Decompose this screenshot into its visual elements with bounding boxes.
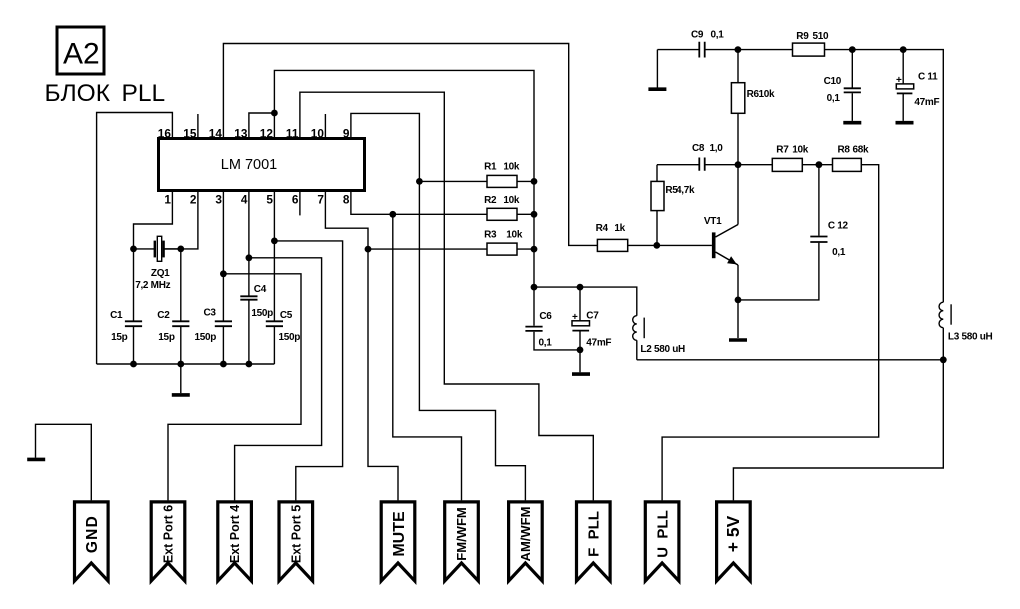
wire R1 right lead bbox=[517, 180, 534, 182]
svg-text:13: 13 bbox=[234, 126, 248, 140]
node R4/R5 base node bbox=[653, 242, 660, 249]
svg-text:2: 2 bbox=[190, 192, 197, 206]
wire pin14 to R4 left bbox=[223, 44, 597, 246]
wire pin2 to crystal right bbox=[164, 191, 198, 249]
svg-text:C2: C2 bbox=[157, 310, 170, 321]
svg-text:+: + bbox=[572, 312, 578, 323]
svg-text:15p: 15p bbox=[158, 332, 175, 343]
svg-text:FM/WFM: FM/WFM bbox=[454, 507, 469, 560]
svg-text:A2: A2 bbox=[63, 38, 100, 71]
wire emitter to ground bbox=[737, 265, 739, 338]
svg-text:MUTE: MUTE bbox=[391, 511, 408, 557]
wire R6 top lead bbox=[737, 50, 739, 83]
wire R2 right lead bbox=[517, 213, 534, 215]
svg-text:10k: 10k bbox=[792, 145, 809, 156]
wire emitter node to C12 bottom bbox=[738, 243, 819, 300]
wire R5 bottom lead bbox=[656, 211, 658, 246]
resistor R4 bbox=[597, 239, 627, 251]
svg-text:C8: C8 bbox=[692, 143, 705, 154]
svg-text:1,0: 1,0 bbox=[710, 143, 724, 154]
svg-text:C9: C9 bbox=[691, 30, 704, 41]
svg-text:AM/WFM: AM/WFM bbox=[518, 507, 533, 562]
wire L3 bottom to +5V bbox=[733, 328, 943, 501]
wire ground bus under C1-C5 bbox=[97, 363, 275, 365]
svg-text:ZQ1: ZQ1 bbox=[151, 268, 170, 279]
wire pin3 to C3 bbox=[222, 191, 224, 322]
svg-text:10: 10 bbox=[311, 126, 325, 140]
wire pin3 branch to Ext Port 6 bbox=[168, 274, 301, 501]
svg-text:C 11: C 11 bbox=[918, 72, 938, 83]
svg-text:C7: C7 bbox=[586, 311, 599, 322]
wire pin16 to ground bus bbox=[97, 113, 173, 365]
svg-text:Ext Port 4: Ext Port 4 bbox=[228, 505, 242, 563]
wire pin4 branch to Ext Port 4 bbox=[235, 258, 322, 501]
wire top rail left to C9 bbox=[657, 49, 699, 51]
wire C8 to R7 bbox=[705, 164, 773, 166]
resistor R2 bbox=[487, 208, 517, 220]
node R6 top node bbox=[735, 46, 742, 53]
svg-text:9: 9 bbox=[343, 126, 350, 140]
capacitor C3 bbox=[215, 321, 232, 326]
wire pin5 to C5 bbox=[273, 191, 275, 322]
node emitter node bbox=[735, 297, 742, 304]
resistor R6 bbox=[731, 83, 744, 114]
wire crystal right node to C2 bbox=[180, 249, 182, 321]
svg-text:R7: R7 bbox=[776, 145, 789, 156]
inductor L3 bbox=[939, 302, 951, 328]
wire pin10 stub bbox=[324, 114, 326, 139]
svg-text:+ 5V: + 5V bbox=[723, 515, 743, 552]
wire C3 to bus bbox=[222, 327, 224, 365]
wire C7 bottom lead bbox=[579, 331, 581, 350]
node R3 left node bbox=[365, 246, 372, 253]
node crystal right node bbox=[177, 246, 184, 253]
wire R5 top lead bbox=[656, 165, 658, 182]
svg-text:C1: C1 bbox=[110, 310, 123, 321]
connector flag GND bbox=[75, 502, 109, 581]
svg-text:L3 580 uH: L3 580 uH bbox=[948, 332, 993, 343]
resistor R1 bbox=[487, 175, 517, 187]
inductor L2 bbox=[633, 316, 645, 341]
capacitor C7 electrolytic bbox=[572, 321, 590, 331]
resistor R7 bbox=[772, 158, 802, 171]
wire R3 right lead bbox=[517, 248, 534, 250]
wire R3 left lead bbox=[368, 248, 487, 250]
svg-text:+: + bbox=[896, 75, 902, 86]
node C3 bus node bbox=[220, 361, 227, 368]
svg-text:C10: C10 bbox=[824, 76, 842, 87]
svg-text:16: 16 bbox=[158, 126, 172, 140]
node pin4 branch node bbox=[246, 254, 253, 261]
wire C11 top lead bbox=[902, 50, 904, 84]
wire C5 to bus bbox=[273, 327, 275, 365]
svg-text:10k: 10k bbox=[503, 195, 520, 206]
svg-text:8: 8 bbox=[343, 192, 350, 206]
wire L2 bottom to bus bbox=[636, 340, 638, 360]
transistor VT1 bbox=[712, 225, 738, 266]
svg-text:7: 7 bbox=[317, 192, 324, 206]
svg-text:R2: R2 bbox=[484, 195, 497, 206]
node R3 right node bbox=[531, 246, 538, 253]
svg-text:PLL: PLL bbox=[122, 80, 166, 107]
svg-text:14: 14 bbox=[209, 126, 223, 140]
ground under C2 bbox=[172, 393, 190, 397]
wire GND flag to ground bbox=[36, 424, 92, 500]
capacitor C12 bbox=[810, 237, 827, 243]
wire pin11 to F PLL bbox=[300, 92, 593, 500]
svg-text:Ext Port 6: Ext Port 6 bbox=[162, 505, 176, 563]
svg-text:GND: GND bbox=[84, 515, 101, 553]
svg-text:R4: R4 bbox=[596, 223, 609, 234]
wire R7 to R8 bbox=[802, 164, 832, 166]
svg-text:R9: R9 bbox=[796, 31, 809, 42]
ground under C10 bbox=[843, 121, 861, 125]
connector flag F PLL bbox=[577, 502, 611, 581]
svg-text:C4: C4 bbox=[254, 284, 267, 295]
capacitor C5 bbox=[266, 321, 283, 326]
svg-text:1: 1 bbox=[164, 192, 171, 206]
node C11 top node bbox=[900, 46, 907, 53]
svg-text:Ext Port 5: Ext Port 5 bbox=[289, 505, 303, 563]
svg-text:68k: 68k bbox=[853, 145, 870, 156]
capacitor C10 bbox=[844, 88, 861, 92]
node crystal left node bbox=[130, 246, 137, 253]
svg-text:150p: 150p bbox=[195, 332, 217, 343]
wire ground stub under C7 bbox=[579, 350, 581, 372]
wire C11 bottom lead bbox=[902, 94, 904, 121]
capacitor C8 bbox=[699, 158, 704, 171]
svg-text:F PLL: F PLL bbox=[586, 511, 603, 557]
resistor R8 bbox=[833, 158, 862, 171]
node L3 bus node bbox=[940, 356, 947, 363]
node R2 left node bbox=[389, 211, 396, 218]
node collector node bbox=[735, 161, 742, 168]
ground under VT1 emitter bbox=[729, 338, 747, 342]
svg-text:C5: C5 bbox=[280, 310, 293, 321]
svg-text:U PLL: U PLL bbox=[655, 510, 672, 558]
svg-text:1k: 1k bbox=[614, 223, 625, 234]
wire R8 to U PLL bbox=[662, 165, 879, 501]
wire R4 right to VT1 base bbox=[628, 244, 712, 246]
ground top left bbox=[27, 458, 45, 462]
svg-text:L2 580 uH: L2 580 uH bbox=[640, 344, 685, 355]
svg-text:5: 5 bbox=[266, 192, 273, 206]
IC U1 LM7001 body bbox=[159, 139, 365, 191]
svg-text:10k: 10k bbox=[506, 230, 523, 241]
connector flag Ext Port 6 bbox=[151, 502, 185, 581]
wire ground stub under C9 rail bbox=[656, 50, 658, 88]
crystal ZQ1 bbox=[134, 236, 181, 261]
node R2 right node bbox=[531, 211, 538, 218]
svg-text:3: 3 bbox=[215, 192, 222, 206]
node C1 bus node bbox=[130, 361, 137, 368]
wire R9 to top right corner bbox=[825, 50, 944, 303]
wire C10 bottom lead bbox=[851, 93, 853, 121]
wire node to L2 top bbox=[534, 287, 637, 316]
wire ground stub under C2 bbox=[180, 364, 182, 393]
node R7/R8/C12 node bbox=[816, 161, 823, 168]
wire R2 left lead bbox=[393, 213, 487, 215]
svg-text:7,2 MHz: 7,2 MHz bbox=[135, 280, 170, 291]
wire crystal left node to C1 bbox=[133, 249, 135, 321]
wire C7 top lead bbox=[579, 287, 581, 321]
svg-text:R8: R8 bbox=[838, 145, 851, 156]
node C6/C7 bottom node bbox=[577, 347, 584, 354]
wire C1 to bus bbox=[133, 327, 135, 365]
svg-text:0,1: 0,1 bbox=[711, 30, 725, 41]
svg-text:0,1: 0,1 bbox=[827, 93, 841, 104]
svg-text:0,1: 0,1 bbox=[539, 337, 553, 348]
connector flag MUTE bbox=[381, 502, 415, 581]
wire pin12 to resistor bus bbox=[274, 70, 534, 325]
wire pin6 stub bbox=[299, 191, 301, 216]
svg-text:12: 12 bbox=[260, 126, 274, 140]
wire pin13 to pin12 bbox=[249, 113, 275, 139]
capacitor C2 bbox=[172, 321, 189, 326]
wire C4 to bus bbox=[248, 300, 250, 364]
node C2 bus node bbox=[177, 361, 184, 368]
wire C12 top lead bbox=[818, 165, 820, 236]
wire pin8 to FM/WFM bbox=[351, 191, 462, 501]
ground under C9 rail bbox=[648, 87, 666, 91]
wire C2 to bus bbox=[180, 327, 182, 365]
svg-text:11: 11 bbox=[286, 126, 299, 140]
resistor R3 bbox=[487, 243, 517, 255]
capacitor C4 bbox=[240, 296, 257, 299]
svg-text:15: 15 bbox=[183, 126, 197, 140]
svg-text:47mF: 47mF bbox=[914, 97, 939, 108]
connector flag Ext Port 5 bbox=[279, 502, 313, 581]
wire pin7 to MUTE bbox=[325, 191, 398, 501]
resistor R9 bbox=[793, 43, 825, 56]
ground under C11 bbox=[896, 121, 914, 125]
svg-text:БЛОК: БЛОК bbox=[45, 80, 111, 107]
svg-text:6: 6 bbox=[292, 192, 299, 206]
wire pin15 stub bbox=[197, 114, 199, 139]
wire R1 left lead bbox=[419, 180, 487, 182]
node C4 bus node bbox=[246, 361, 253, 368]
wire bottom bus L2 to L3 bbox=[637, 359, 944, 361]
wire pin4 to C4 bbox=[248, 191, 250, 296]
node pin12/pin13 node bbox=[271, 110, 278, 117]
svg-text:15p: 15p bbox=[111, 332, 128, 343]
resistor R5 bbox=[651, 181, 664, 210]
svg-text:150p: 150p bbox=[251, 308, 273, 319]
connector flag Ext Port 4 bbox=[218, 502, 252, 581]
svg-text:VT1: VT1 bbox=[704, 216, 722, 227]
node R1 left node bbox=[416, 178, 423, 185]
svg-text:510: 510 bbox=[813, 31, 830, 42]
node pin5 branch node bbox=[271, 238, 278, 245]
wire R5 to C8 bbox=[657, 164, 699, 166]
svg-text:LM 7001: LM 7001 bbox=[221, 157, 277, 173]
capacitor C11 electrolytic bbox=[896, 84, 913, 94]
capacitor C6 bbox=[525, 327, 542, 331]
svg-text:R3: R3 bbox=[484, 230, 497, 241]
wire pin9 to AM/WFM bbox=[351, 113, 526, 500]
A2 designator box bbox=[57, 27, 104, 74]
svg-text:150p: 150p bbox=[279, 332, 301, 343]
svg-text:10k: 10k bbox=[759, 89, 776, 100]
capacitor C1 bbox=[125, 321, 142, 326]
connector flag + 5V bbox=[717, 502, 751, 581]
svg-text:C6: C6 bbox=[539, 311, 552, 322]
node C7 top node bbox=[577, 284, 584, 291]
svg-text:C3: C3 bbox=[204, 308, 217, 319]
wire pin5 branch to Ext Port 5 bbox=[274, 241, 342, 501]
node C6 top node bbox=[531, 284, 538, 291]
wire collector lead bbox=[737, 165, 739, 225]
svg-text:47mF: 47mF bbox=[586, 337, 611, 348]
capacitor C9 bbox=[699, 42, 704, 58]
connector flag U PLL bbox=[645, 502, 679, 581]
svg-text:0,1: 0,1 bbox=[832, 247, 846, 258]
connector flag FM/WFM bbox=[445, 502, 479, 581]
svg-text:10k: 10k bbox=[503, 162, 520, 173]
node R1 right node bbox=[531, 178, 538, 185]
node C10 top node bbox=[849, 46, 856, 53]
wire C6 bottom to node bbox=[534, 332, 580, 350]
wire C10 top lead bbox=[851, 50, 853, 88]
svg-text:4: 4 bbox=[241, 192, 248, 206]
svg-text:R1: R1 bbox=[484, 162, 497, 173]
svg-text:4,7k: 4,7k bbox=[676, 185, 695, 196]
wire C9 to R9 bbox=[705, 49, 793, 51]
wire R6 bottom to collector node bbox=[737, 113, 739, 164]
wire pin1 to crystal left bbox=[134, 191, 173, 249]
svg-text:C 12: C 12 bbox=[828, 221, 849, 232]
connector flag AM/WFM bbox=[509, 502, 543, 581]
node pin3 branch node bbox=[220, 270, 227, 277]
ground under C7 bbox=[572, 372, 590, 376]
